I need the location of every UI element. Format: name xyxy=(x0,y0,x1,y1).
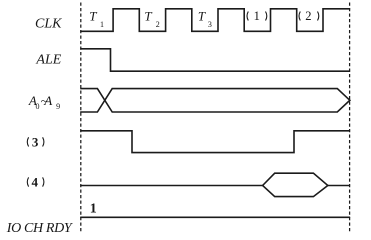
CLK waveform xyxy=(81,9,349,32)
svg-text:2: 2 xyxy=(156,20,160,29)
label (4) xyxy=(27,175,44,190)
svg-text:IO CH RDY: IO CH RDY xyxy=(6,221,74,236)
IO CH RDY waveform xyxy=(81,216,349,218)
A0~A9 bus waveform upper-to-lower crossing line xyxy=(81,89,350,112)
svg-text:T: T xyxy=(89,8,97,23)
svg-text:4: 4 xyxy=(32,175,39,190)
signal (4) waveform upper line with hexagon top xyxy=(81,173,349,185)
A0~A9 bus waveform lower-to-upper crossing line xyxy=(81,89,350,112)
svg-text:0: 0 xyxy=(36,102,40,111)
svg-text:T: T xyxy=(198,8,206,23)
signal (3) waveform xyxy=(81,131,349,153)
svg-text:1: 1 xyxy=(90,201,97,216)
ALE waveform xyxy=(81,49,349,71)
svg-text:9: 9 xyxy=(56,102,60,111)
signal (4) hexagon bottom xyxy=(263,186,328,197)
svg-text:3: 3 xyxy=(32,134,39,149)
svg-text:ALE: ALE xyxy=(35,53,61,68)
left time-reference dashed line xyxy=(80,3,82,233)
svg-text:3: 3 xyxy=(208,20,212,29)
label (3) xyxy=(27,134,44,149)
svg-text:1: 1 xyxy=(254,9,260,23)
label (1) xyxy=(247,9,267,23)
svg-text:2: 2 xyxy=(305,9,311,23)
right time-reference dashed line xyxy=(349,3,351,233)
svg-text:T: T xyxy=(144,8,152,23)
svg-text:CLK: CLK xyxy=(35,17,62,32)
label (2) xyxy=(299,9,319,23)
svg-text:A: A xyxy=(43,93,52,108)
svg-text:1: 1 xyxy=(100,20,104,29)
